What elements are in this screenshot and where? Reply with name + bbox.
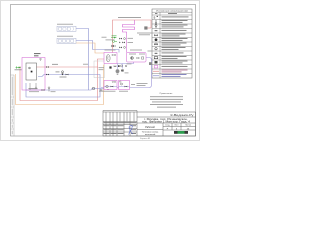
legend row 12: mrect symbol xyxy=(154,66,187,68)
wire DHW cold feed (orange) to heater xyxy=(76,43,104,53)
label top loop xyxy=(118,16,141,19)
wire cluster stubs (purple) xyxy=(118,64,123,70)
pump group box xyxy=(127,53,147,63)
wire floor-heating loop (pink) down into DHW heater xyxy=(113,20,152,53)
legend row 4: dash symbol xyxy=(155,30,187,31)
green DHW arrows xyxy=(111,37,117,39)
svg-text:пос. Фабрики 1 Мая кор. Гард.: пос. Фабрики 1 Мая кор. Гард. 4 xyxy=(142,120,191,123)
boiler unit xyxy=(26,63,37,80)
boiler room box xyxy=(22,58,45,91)
label frame (makeup unit) xyxy=(94,61,105,78)
legend row 2: therm symbol xyxy=(155,20,187,24)
wire supply main (pink): heater to bottom run and boiler left riser xyxy=(20,59,104,101)
svg-text:Условные обозначения: Условные обозначения xyxy=(156,11,188,13)
wire DHW bottom run (orange) xyxy=(16,65,104,105)
svg-text:Б: Б xyxy=(154,15,156,19)
wire makeup water line (blue) xyxy=(26,89,110,91)
boiler drain xyxy=(30,83,37,90)
title block xyxy=(103,111,196,137)
boiler safety group xyxy=(40,58,42,61)
coil (floor heating serpentine) xyxy=(123,20,135,33)
legend table xyxy=(152,9,192,78)
makeup pumps xyxy=(92,87,109,90)
drawing frame xyxy=(11,5,196,137)
svg-text:Стад.: Стад. xyxy=(165,125,170,127)
valves on supply line xyxy=(46,66,49,68)
svg-text:Формат А3: Формат А3 xyxy=(140,137,151,140)
legend row 10: rect symbol xyxy=(154,56,186,59)
legend row 5: valve symbol xyxy=(154,34,185,37)
pumps cluster xyxy=(121,69,123,71)
small valves on DHW line xyxy=(113,45,115,46)
svg-text:К-Видинск-Ру: К-Видинск-Ру xyxy=(171,113,195,117)
page edge xyxy=(1,1,200,141)
valve column xyxy=(119,38,125,48)
legend row 9: dash symbol xyxy=(155,52,184,53)
wire radiator loop (purple) xyxy=(101,58,152,88)
legend row 14: blueline symbol xyxy=(153,74,187,77)
wire boiler return (blue) loop via bottom xyxy=(26,75,100,98)
wire cluster return branch (blue) xyxy=(93,50,120,53)
logo xyxy=(174,131,178,134)
svg-text:Лист: Лист xyxy=(175,125,179,127)
wire heater-to-pumpgroup line (purple) xyxy=(117,62,134,64)
legend row 13: pinkline symbol xyxy=(153,70,188,73)
legend row 6: pumpf symbol xyxy=(155,38,188,41)
svg-text:Листов: Листов xyxy=(185,125,191,127)
collector 2 (return manifold) xyxy=(57,36,76,44)
legend row 1: bm symbol xyxy=(154,15,189,19)
left margin stamp column xyxy=(11,75,15,136)
circulation pump top xyxy=(144,26,147,29)
cold water stubs xyxy=(29,87,38,90)
wire manifold 2 return (blue) xyxy=(76,41,93,50)
wire coil return drop (magenta) xyxy=(126,33,128,53)
svg-text:Рабочий: Рабочий xyxy=(145,126,155,129)
legend row 11: blob symbol xyxy=(155,61,188,64)
wire boiler supply main (pink) xyxy=(37,66,99,68)
gas inlet (green) xyxy=(16,66,22,68)
legend row 7: valve3 symbol xyxy=(154,43,186,46)
water heater box xyxy=(104,53,117,64)
bottom boxes xyxy=(104,81,117,90)
left cells smudges xyxy=(104,122,137,123)
legend row 8: circ symbol xyxy=(155,47,186,50)
valve on floor-loop drop xyxy=(112,45,114,47)
wire manifold 1 feed (blue) long drop xyxy=(76,29,89,91)
valves+pump on return line xyxy=(46,74,68,76)
signature scribble xyxy=(129,125,134,134)
svg-text:Примечание: Примечание xyxy=(160,93,173,95)
svg-text:котельной: котельной xyxy=(145,133,156,136)
expansion tank gray xyxy=(149,62,152,65)
legend row 3: gauge symbol xyxy=(155,24,188,28)
collector 1 (supply manifold) xyxy=(57,24,76,32)
